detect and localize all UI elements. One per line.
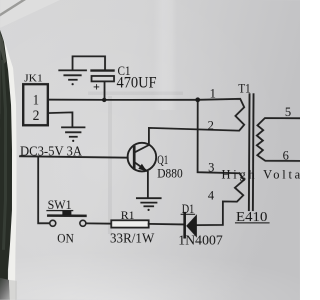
svg-text:2: 2 [208,118,214,132]
svg-text:E410: E410 [236,209,268,224]
svg-text:+: + [93,80,100,94]
svg-text:33R/1W: 33R/1W [110,231,155,246]
svg-text:R1: R1 [121,208,135,222]
svg-text:ON: ON [57,231,74,245]
svg-text:5: 5 [285,105,291,119]
svg-text:6: 6 [283,149,289,163]
svg-text:4: 4 [208,189,215,203]
svg-text:JK1: JK1 [24,74,43,85]
svg-text:T1: T1 [238,82,251,96]
svg-text:D1: D1 [182,202,195,216]
svg-text:1: 1 [33,92,39,108]
svg-text:DC3-5V 3A: DC3-5V 3A [20,144,83,159]
svg-text:1: 1 [210,87,216,101]
svg-text:3: 3 [208,160,214,174]
svg-text:SW1: SW1 [48,198,72,212]
svg-text:D880: D880 [157,166,182,181]
svg-text:1N4007: 1N4007 [178,232,223,247]
svg-text:470UF: 470UF [117,75,157,92]
svg-text:2: 2 [33,108,40,124]
